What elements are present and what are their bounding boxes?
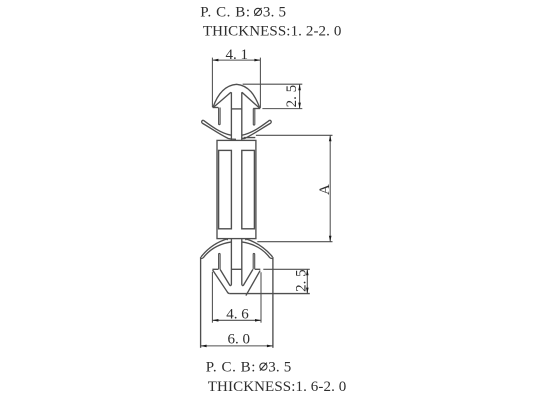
top left wing tip cap [202,120,204,123]
bottom head trapezoid right slant [246,271,260,296]
dimension A: up arrow [329,135,332,141]
dimension A: dim line [329,135,331,241]
svg-text:2. 5: 2. 5 [284,85,300,108]
dimension 6.0 right arrow [267,345,273,348]
top head left flap bottom edge [213,107,219,109]
bottom left wing tip cap [201,257,203,260]
top head right flap bottom edge [253,108,260,110]
bottom envelope right side / 6.0 right extension [272,257,274,348]
svg-text:P. C. B:: P. C. B: [200,5,250,21]
body left slot [219,150,232,228]
dimension A: lower extension line [257,241,332,243]
top head dome outer curve [213,84,260,108]
bottom right wing root step [245,239,247,241]
dimension A: down arrow [329,236,332,242]
stem left line upper [230,92,232,140]
dimension 4.1 left extension line [211,58,213,108]
dimension 2.5 bottom: up arrow [306,269,309,275]
bottom left wing inner edge [203,242,231,258]
top head right flap inner line [242,92,260,108]
bottom stem right line + right V notch + inner flap line [242,239,253,286]
svg-text:6. 0: 6. 0 [228,332,251,348]
dimension 2.5 top: upper extension line [243,83,303,85]
dimension 4.1 left arrow [212,59,218,62]
dimension 2.5 top: up arrow [298,84,301,90]
dimension 2.5 bottom: down arrow [306,288,309,294]
top left wing upper edge [203,120,231,135]
dimension 4.6 right arrow [255,319,261,322]
top right wing upper edge [242,120,270,135]
svg-text:4. 6: 4. 6 [226,307,249,323]
dimension 4.1 right extension line [259,58,261,108]
svg-text:THICKNESS:1. 6-2. 0: THICKNESS:1. 6-2. 0 [208,379,347,395]
dimension 4.1 dim line [212,59,260,61]
svg-text:A: A [317,184,333,195]
dimension 4.6 right extension line [260,272,262,323]
top head left flap inner line [213,92,231,107]
bottom envelope left side / 6.0 left extension [200,257,202,348]
bottom right wing inner edge [242,242,270,258]
dimension 2.5 bottom: upper extension line [263,268,310,270]
bottom head left leg [219,253,221,269]
bottom right wing tip cap [270,257,273,260]
top right wing lower edge [242,123,271,139]
dimension 2.5 top: lower extension line [262,108,302,110]
dimension 4.1 right arrow [254,59,260,62]
top head right leg [253,109,255,126]
bottom head right flap top edge [255,268,260,270]
stem right line upper [241,92,243,140]
dimension A: upper extension line [256,134,333,136]
bottom left wing outer edge [201,239,227,257]
bottom head flat bottom + 2.5 bottom extension line [230,293,310,295]
bottom right wing outer edge [246,239,273,257]
dimension 4.6 dim line [212,319,261,321]
svg-text:3. 5: 3. 5 [263,5,286,21]
svg-text:P. C. B:: P. C. B: [206,359,256,375]
bottom note text line 1 [206,359,292,375]
svg-text:2. 5: 2. 5 [294,269,310,292]
top head left leg [219,108,221,125]
top note text line 1 [200,5,286,21]
body right slot [242,150,255,228]
dimension 4.6 left arrow [212,319,218,322]
svg-text:THICKNESS:1. 2-2. 0: THICKNESS:1. 2-2. 0 [203,24,342,40]
body outer rectangle [217,140,256,238]
svg-text:3. 5: 3. 5 [268,359,291,375]
bottom stem left line + left V notch + inner flap line [220,239,231,286]
dimension 6.0 dim line [201,345,273,347]
dimension 2.5 top: down arrow [298,103,301,109]
dimension 4.6 left extension line [211,272,213,323]
bottom left wing root step [226,239,228,241]
bottom head right leg [253,253,255,269]
top right wing tip cap [270,120,272,123]
bottom head left flap top edge [212,268,218,270]
bottom head notch line [231,268,241,270]
dimension 6.0 left arrow [201,345,207,348]
bottom head trapezoid left slant [213,270,230,294]
dimension 2.5 bottom: dim line [306,269,308,293]
dimension 2.5 top: dim line [299,84,301,108]
top left wing lower edge [202,123,236,139]
top head notch bottom line [231,108,241,110]
